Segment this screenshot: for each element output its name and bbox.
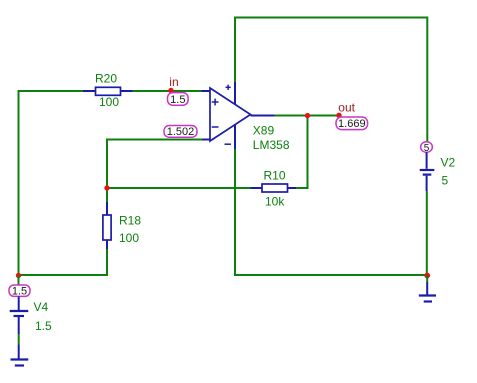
voltage readout oval at node out 1.669: [336, 117, 368, 130]
pin op-amp inverting input lead: [202, 139, 210, 141]
svg-text:10k: 10k: [265, 194, 285, 208]
svg-text:5: 5: [442, 174, 449, 188]
pin R18 top lead: [106, 202, 108, 216]
wire ground right stub: [426, 276, 428, 283]
wire top rail: [234, 17, 428, 19]
op-amp noninverting input plus sign inside: [212, 99, 219, 106]
wire R18 bottom vertical: [106, 249, 108, 276]
wire bottom left rail: [18, 274, 109, 276]
resistor R10: [262, 184, 288, 192]
junction bottom right node: [424, 273, 430, 279]
wire output net: [275, 115, 340, 117]
svg-text:in: in: [169, 75, 178, 89]
svg-text:R18: R18: [119, 213, 141, 227]
svg-text:R20: R20: [95, 71, 117, 85]
resistor R18: [103, 215, 111, 240]
junction bottom left node: [16, 273, 21, 278]
svg-text:1.502: 1.502: [167, 126, 195, 138]
op-amp inverting input minus sign inside: [212, 126, 219, 128]
pin V4 bottom lead: [18, 317, 20, 334]
wire left rail: [18, 91, 20, 277]
svg-text:LM358: LM358: [253, 138, 290, 152]
svg-text:100: 100: [99, 95, 119, 109]
junction node out: [336, 113, 341, 118]
wire V4 top stub: [18, 276, 20, 287]
svg-text:5: 5: [424, 143, 430, 154]
op-amp plus supply marker: [226, 85, 231, 90]
op-amp minus supply marker: [225, 143, 232, 145]
pin op-amp noninverting input lead: [202, 90, 211, 92]
battery V2 negative plate: [423, 174, 432, 176]
svg-text:100: 100: [119, 231, 139, 245]
svg-text:1.5: 1.5: [170, 94, 185, 106]
ground left: [11, 345, 29, 366]
pin op-amp output lead: [251, 115, 275, 117]
wire input net right segment: [133, 90, 202, 92]
pin R18 bottom lead: [106, 240, 108, 249]
battery V2 positive plate: [420, 169, 435, 171]
junction feedback node: [104, 185, 109, 190]
wire V2 to bottom rail: [426, 191, 428, 276]
ground right: [419, 282, 436, 302]
wire inverting net horizontal: [106, 139, 202, 141]
voltage readout oval at inverting input 1.502: [164, 126, 197, 139]
wire right rail upper: [426, 17, 428, 143]
pin R10 right lead: [288, 187, 298, 189]
svg-text:V4: V4: [34, 300, 49, 314]
wire feedback bottom horizontal: [106, 187, 251, 189]
op-amp U1 X89 LM358 triangle body: [210, 88, 251, 141]
svg-text:R10: R10: [264, 169, 286, 183]
wire V4 to ground: [18, 334, 20, 345]
voltage readout oval at V4 top 1.5: [9, 285, 30, 298]
pin V2 bottom lead: [426, 176, 428, 191]
battery V4 negative plate: [14, 315, 25, 317]
pin V4 top lead: [18, 296, 20, 310]
wire R18 top vertical: [106, 188, 108, 202]
svg-text:X89: X89: [253, 124, 275, 138]
wire feedback left vertical: [106, 139, 108, 190]
svg-text:1.5: 1.5: [35, 319, 52, 333]
voltage readout oval at node in 1.5: [168, 93, 189, 107]
resistor R20: [96, 87, 121, 95]
wire input net left segment: [18, 90, 84, 92]
pin op-amp V+ power pin (blue): [234, 82, 236, 105]
junction output-feedback node: [305, 113, 310, 118]
wire R10 to feedback corner: [296, 187, 309, 189]
battery V4 positive plate: [10, 310, 29, 312]
pin V2 top lead: [426, 152, 428, 169]
wire feedback right vertical: [307, 115, 309, 189]
voltage readout circle at V2 top 5: [421, 142, 433, 154]
svg-text:1.669: 1.669: [338, 118, 366, 130]
pin R10 left lead: [251, 187, 263, 189]
junction node in: [168, 88, 173, 93]
svg-text:V2: V2: [441, 156, 456, 170]
pin op-amp V- power pin (blue): [234, 124, 236, 149]
pin R20 right lead: [120, 90, 133, 92]
pin R20 left lead: [83, 90, 96, 92]
svg-text:1.5: 1.5: [12, 286, 27, 298]
svg-text:out: out: [338, 101, 355, 115]
wire op-amp V- to bottom rail: [234, 149, 236, 276]
wire bottom right rail: [234, 274, 428, 276]
wire V+ supply pin vertical (green): [234, 17, 236, 83]
